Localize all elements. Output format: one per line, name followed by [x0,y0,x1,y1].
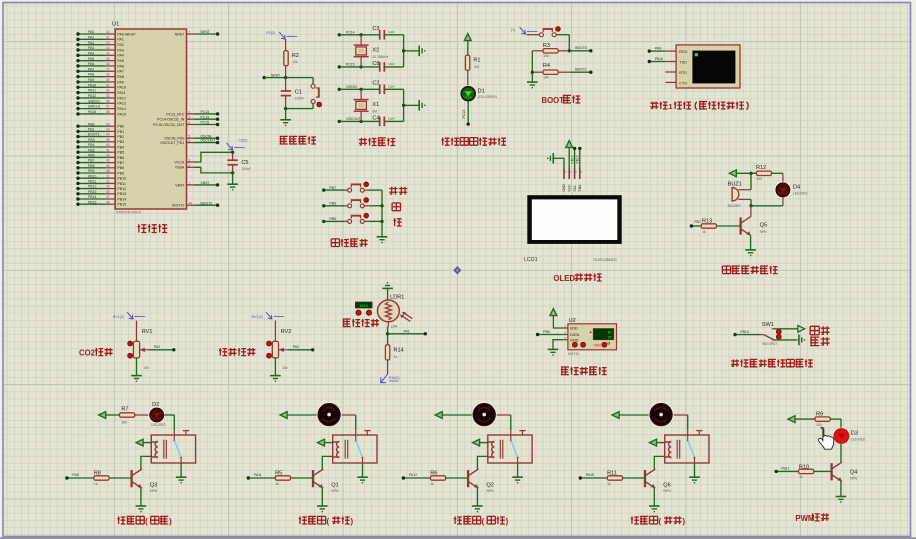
svg-text:Q1: Q1 [331,482,338,488]
svg-text:VDD: VDD [570,327,578,331]
svg-text:PA14: PA14 [117,107,125,111]
terminal PB3 [76,140,79,143]
wire / pin PB11 [78,182,105,184]
svg-text:VBAT: VBAT [175,183,185,187]
LED D1 LED-GREEN [460,85,477,102]
wire buzzer pins [738,189,751,191]
wire DATA [538,334,563,336]
svg-text:PA8: PA8 [88,73,94,77]
svg-text:10k: 10k [282,366,288,370]
svg-text:PA3: PA3 [88,46,94,50]
resistor R13 1k [691,225,701,227]
terminal PA1 [76,38,79,41]
svg-text:DHT11: DHT11 [568,352,579,356]
wire coil to collector [322,456,332,468]
svg-text:DATA: DATA [570,333,580,337]
terminal SWCLK [76,107,79,110]
wire / pin PC14-OSC32_IN [187,118,194,120]
ground [689,476,700,478]
terminal PB0 [76,125,79,128]
resistor R14 1k [385,345,389,360]
ground (rotated) [798,335,800,346]
svg-text:NPN: NPN [664,489,672,493]
svg-text:PB9: PB9 [117,171,124,175]
svg-text:100nF: 100nF [242,167,251,171]
wire / pin PA13 [78,102,105,104]
terminal PB6 [536,333,539,336]
svg-text:300: 300 [474,65,480,69]
svg-text:10k: 10k [543,54,549,58]
svg-text:RV1: RV1 [142,329,153,335]
svg-text:PB5: PB5 [117,151,124,155]
svg-text:R2(2): R2(2) [266,31,275,35]
wire NRST node [264,77,313,79]
pin CTS [665,81,676,83]
svg-text:RV1(2): RV1(2) [113,315,124,319]
resistor R12 300 [756,171,771,175]
ground (rotated) [418,46,420,57]
wire / pin PB4 [78,146,105,148]
svg-text:31: 31 [106,83,110,87]
svg-text:LED-GREEN: LED-GREEN [478,95,498,99]
svg-text:33: 33 [106,94,110,98]
terminal PA2 [76,43,79,46]
svg-text:PA11: PA11 [117,91,125,95]
crystal X1 [359,88,362,91]
svg-text:OSCIN: OSCIN [201,134,212,138]
terminal BOOT1 [589,71,592,74]
ground [136,505,147,507]
svg-text:PB6: PB6 [88,154,95,158]
svg-text:2: 2 [189,110,191,114]
svg-text:44: 44 [189,202,193,206]
virtual terminal body [676,45,740,88]
wire VCCA [187,161,194,163]
label 有人 [810,337,819,345]
terminal PC15 [216,123,219,126]
wire collector [750,206,752,217]
svg-text:42: 42 [106,154,110,158]
svg-text:R1: R1 [473,58,480,64]
label 设置 [389,187,397,195]
svg-text:10: 10 [106,30,110,34]
wire / pin PB3 [78,141,105,143]
svg-text:PB12: PB12 [117,187,126,191]
svg-text:22: 22 [106,180,110,184]
svg-text:1k: 1k [799,475,803,479]
wire [517,463,519,477]
power arrow [435,412,442,419]
motor [649,402,674,427]
label 继电器(加热) [117,516,125,524]
svg-text:PA9: PA9 [88,78,94,82]
svg-text:PB11: PB11 [117,182,125,186]
svg-text:1k: 1k [607,482,611,486]
wire TXD [649,61,665,63]
resistor R10 1k [776,470,798,472]
wire [830,418,841,420]
svg-text:PC13_RTC: PC13_RTC [166,112,185,116]
svg-text:OLED12864DC: OLED12864DC [594,258,618,262]
wire / pin PA12 [78,97,105,99]
wire / pin PA8 [78,76,105,78]
power arrow [280,412,287,419]
motor [317,402,342,427]
svg-text:): ) [169,517,172,526]
svg-text:BOOT0: BOOT0 [575,46,587,50]
wire right rail [384,34,403,36]
power arrow (coil) [473,439,480,446]
wire / pin PA5 [78,60,105,62]
wire [556,34,569,36]
svg-text:(: ( [482,517,485,526]
svg-text:Q4: Q4 [850,469,857,475]
wire [136,321,138,342]
wire right rail [384,88,403,90]
svg-text:12pF: 12pF [388,30,395,34]
svg-text:5: 5 [189,135,191,139]
terminal PA8 [65,476,68,479]
svg-text:C3: C3 [372,26,379,32]
terminal PA11 [76,91,79,94]
svg-text:NPN: NPN [487,489,495,493]
transistor Q3 NPN [130,470,132,487]
svg-text:PB3: PB3 [117,140,124,144]
terminal OSCIN [338,88,341,91]
svg-text:PB8: PB8 [88,164,95,168]
svg-text:NPN: NPN [760,230,768,234]
wire / pin PB9 [78,172,105,174]
LDR arrows [401,315,410,321]
wire [180,463,182,477]
svg-text:PA7: PA7 [88,67,94,71]
svg-text:LDR: LDR [391,325,398,329]
terminal PA11 [247,476,250,479]
hand cursor [818,427,833,449]
power arrow [550,309,557,316]
resistor R2 10k [284,51,288,66]
wire emitter [653,488,655,506]
svg-text:): ) [351,517,354,526]
svg-text:43: 43 [106,159,110,163]
wire [694,463,696,477]
svg-text:BOOT0: BOOT0 [172,204,184,208]
ground [280,119,291,121]
svg-text:PA1: PA1 [404,329,410,333]
svg-text:NRST: NRST [175,32,185,36]
svg-text:PB8: PB8 [117,166,124,170]
terminal PC14 [216,118,219,121]
svg-text:PA8: PA8 [117,75,123,79]
wire left rail [531,51,533,82]
wire / pin PA1 [78,38,105,40]
ground [512,476,523,478]
svg-text:VCCA: VCCA [174,160,184,164]
label 加 [392,203,400,211]
wire [467,41,469,55]
svg-text:PB14: PB14 [117,197,126,201]
svg-text:27: 27 [608,336,612,340]
wire [312,104,314,109]
svg-text:37: 37 [106,105,110,109]
svg-text:RXD: RXD [679,50,687,54]
svg-text:PB3: PB3 [88,138,95,142]
wiper wire [279,349,288,351]
potentiometer RV2 10k [272,341,278,358]
terminal PA4 [76,54,79,57]
wire / pin PB14 [78,198,105,200]
svg-text:NRST: NRST [201,30,211,34]
svg-text:PA9: PA9 [655,47,661,51]
svg-text:PB13: PB13 [117,192,126,196]
wire [339,120,380,122]
svg-text:15: 15 [106,57,110,61]
svg-text:R11: R11 [607,470,617,476]
svg-text:D1: D1 [478,89,485,95]
svg-text:BOOT0: BOOT0 [201,201,213,205]
ground [317,505,328,507]
svg-text:PA0: PA0 [88,30,94,34]
push button (boot) [543,28,553,30]
terminal PB9 [76,171,79,174]
capacitor C4 12pF [379,117,381,127]
power arrow (coil) [650,439,657,446]
svg-text:PA1: PA1 [88,35,94,39]
wire / pin PA7 [78,70,105,72]
power arrow (coil) [318,439,325,446]
label 串口1窗口（模拟手机端） [650,102,658,109]
wire [735,334,759,336]
svg-text:PB1: PB1 [117,130,124,134]
wire / pin PB2 [78,136,105,138]
wire [387,360,389,374]
wire emitter [476,488,478,506]
wire / pin PC13_RTC [187,113,194,115]
power arrow (coil) [136,439,143,446]
terminal OSCOUT [338,120,341,123]
svg-text:PA4: PA4 [117,54,123,58]
terminal PA12 [76,96,79,99]
svg-text:C8: C8 [372,61,379,67]
capacitor C8 12pF [379,62,381,72]
svg-text:PB4: PB4 [117,145,124,149]
svg-text:PB7: PB7 [117,161,124,165]
relay switch arm [688,441,695,458]
terminal PA7 [690,224,693,227]
svg-text:39: 39 [106,138,110,142]
svg-text:12pF: 12pF [388,85,395,89]
power arrow [566,141,573,148]
power arrow [99,412,106,419]
svg-text:): ) [683,517,686,526]
svg-text:32: 32 [106,89,110,93]
wire / pin PA15 [78,113,105,115]
svg-text:Q3: Q3 [150,482,157,488]
svg-text:C2: C2 [372,81,379,87]
svg-text:PB5: PB5 [330,217,337,221]
svg-text:C5: C5 [241,160,248,166]
svg-text:1: 1 [189,181,191,185]
svg-text:(1): (1) [511,28,515,32]
svg-text:SW1: SW1 [762,322,774,328]
svg-text:PB6: PB6 [117,156,124,160]
svg-text:OSCIN_PD0: OSCIN_PD0 [164,137,184,141]
terminal PB5 [322,220,325,223]
svg-text:PB7: PB7 [88,159,95,163]
svg-text:R14: R14 [394,347,404,353]
svg-text:......: ...... [528,29,533,32]
svg-text:......: ...... [235,145,240,148]
svg-text:VCC: VCC [567,184,571,192]
svg-text:GND: GND [562,184,566,192]
terminal PB8 [76,166,79,169]
wire rail [381,190,383,237]
svg-text:TXD: TXD [679,61,687,65]
label 无人 [810,326,819,334]
terminal SWDIO [76,102,79,105]
terminal PC13 [216,112,219,115]
svg-text:SWCLK: SWCLK [88,105,101,109]
ground [836,496,847,498]
power arrow [612,412,619,419]
LED D3 LED-RED (lit) [833,428,850,445]
wire [342,414,356,416]
svg-text:BUZZER: BUZZER [728,204,742,208]
svg-text:17: 17 [106,67,110,71]
svg-text:19: 19 [106,128,110,132]
wire [619,414,649,416]
ground [472,505,483,507]
resistor R9 300 [815,417,830,421]
svg-text:R8: R8 [94,470,101,476]
svg-text:PB1: PB1 [88,128,95,132]
svg-text:PA2: PA2 [154,345,160,349]
terminal PA7 [76,70,79,73]
ground (inverted) [382,287,393,289]
wire [840,444,842,463]
resistor R11 1k [580,477,607,479]
svg-text:PA10: PA10 [117,86,125,90]
wire [339,88,380,90]
svg-text:PB7: PB7 [330,186,337,190]
svg-text:100nF: 100nF [295,96,304,100]
push button 减 [351,215,361,217]
svg-text:......: ...... [287,34,292,37]
wire [467,101,469,124]
label 晶振电路 [359,138,367,146]
svg-text:80: 80 [608,331,612,335]
LDR value display [355,302,372,308]
wire [164,414,174,416]
svg-text:R12: R12 [756,165,766,171]
wire emitter [140,488,142,506]
svg-text:20: 20 [106,133,110,137]
wire [527,34,540,36]
svg-text:SCL: SCL [573,185,577,192]
wire [795,418,815,420]
wire / pin PA11 [78,92,105,94]
svg-text:PB11: PB11 [88,180,96,184]
ground [377,236,388,238]
svg-text:C1: C1 [295,89,302,95]
terminal PB7 [76,161,79,164]
resistor R1 300 [465,55,469,70]
svg-text:34: 34 [106,99,110,103]
ground [176,476,187,478]
svg-text:PA5: PA5 [117,59,123,63]
blue marker (1) [520,27,526,34]
LDR1 [378,300,400,322]
wire emitter [321,488,323,506]
label 减 [393,218,401,226]
wire [364,205,369,207]
wire / pin PB1 [78,130,105,132]
svg-text:R6: R6 [430,470,437,476]
svg-text:PA12: PA12 [409,473,417,477]
svg-text:X1: X1 [372,102,379,108]
terminal PA10 [76,86,79,89]
terminal OSCIN [216,137,219,140]
svg-text:PB12: PB12 [88,185,96,189]
terminal SCL [573,147,576,150]
svg-text:D4: D4 [793,184,800,190]
svg-text:PA11: PA11 [254,473,262,477]
wire / pin BOOT0 [187,204,194,206]
svg-text:32.768kHz: 32.768kHz [372,55,388,59]
relay switch arm [511,441,518,458]
bottom window edge [0,537,916,539]
crystal X2 [359,33,362,36]
wire / pin PA9 [78,81,105,83]
svg-text:SDA: SDA [578,184,582,192]
wire [467,70,469,86]
terminal VBAT [216,183,219,186]
ground (rotated) [418,100,420,111]
svg-text:12: 12 [106,41,110,45]
svg-text:RV2: RV2 [281,329,292,335]
terminal BOOT0 [589,49,592,52]
svg-text:30: 30 [106,78,110,82]
svg-text:18: 18 [106,122,110,126]
terminal PA8 [76,75,79,78]
svg-text:NRST: NRST [271,73,281,77]
ground [548,348,559,350]
resistor R5 1k [248,477,275,479]
svg-text:PA3: PA3 [293,345,299,349]
svg-text:PA3: PA3 [117,48,123,52]
terminal PB15 [76,203,79,206]
svg-text:LED-RED: LED-RED [793,191,808,195]
svg-text:C5(2): C5(2) [239,139,248,143]
wire [274,358,276,376]
svg-text:Q2: Q2 [486,482,493,488]
terminal PA3 [311,348,314,351]
wire [782,197,784,206]
label 独立按键 [331,239,339,247]
svg-text:300: 300 [122,420,128,424]
resistor R7 300 [120,413,135,417]
svg-text:PB6: PB6 [330,202,337,206]
label 主芯片 [137,224,146,232]
pin RTS [665,71,676,73]
ground (rotated left) [552,153,554,164]
power arrow [729,170,736,177]
svg-text:PA8: PA8 [72,473,78,477]
wire coil to collector [654,456,664,468]
OLED LCD1 body [527,195,621,244]
wire / pin PB7 [78,162,105,164]
svg-text:SW-SPDT: SW-SPDT [762,342,777,346]
